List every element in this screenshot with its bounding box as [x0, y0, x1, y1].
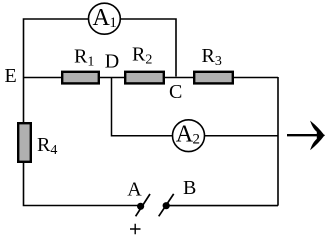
resistor R4 — [18, 123, 31, 162]
wire: right vertical — [277, 77, 279, 206]
resistor R1 — [62, 72, 99, 84]
wire: R4 bottom to bottom-left corner — [24, 163, 141, 206]
wire: resistor row E to R1 — [24, 77, 62, 79]
wire: R1 to R2 through node D — [100, 77, 124, 79]
svg-text:A: A — [127, 178, 142, 200]
wire: D branch down and right to A2 — [112, 78, 173, 136]
ammeter A2 — [173, 120, 205, 152]
wire: R2 to R3 through node C — [165, 77, 193, 79]
resistor R2 — [125, 72, 164, 84]
wire: R3 to right vertical — [234, 77, 278, 79]
switch contact dot A — [137, 203, 144, 210]
svg-text:R4: R4 — [37, 134, 57, 158]
ammeter A1 — [89, 3, 121, 34]
switch contact dot B — [163, 202, 170, 209]
switch blade slash at A — [136, 194, 150, 216]
switch blade slash at B — [159, 194, 174, 216]
wire: left vertical E to R4 top — [23, 77, 25, 122]
svg-text:R1: R1 — [74, 46, 94, 70]
svg-text:R3: R3 — [202, 45, 222, 69]
wire: bottom right from switch B to right vertical — [166, 205, 278, 207]
wire: A2 to right vertical — [205, 135, 278, 137]
wire: top branch from left vertical to C vertical — [24, 19, 177, 77]
battery polarity + sign — [130, 224, 141, 235]
resistor R3 — [194, 72, 233, 84]
svg-text:D: D — [105, 51, 119, 73]
output current arrow — [287, 134, 318, 136]
svg-text:E: E — [5, 65, 17, 87]
svg-text:R2: R2 — [132, 44, 152, 68]
svg-text:B: B — [183, 177, 196, 199]
svg-text:C: C — [169, 81, 182, 103]
